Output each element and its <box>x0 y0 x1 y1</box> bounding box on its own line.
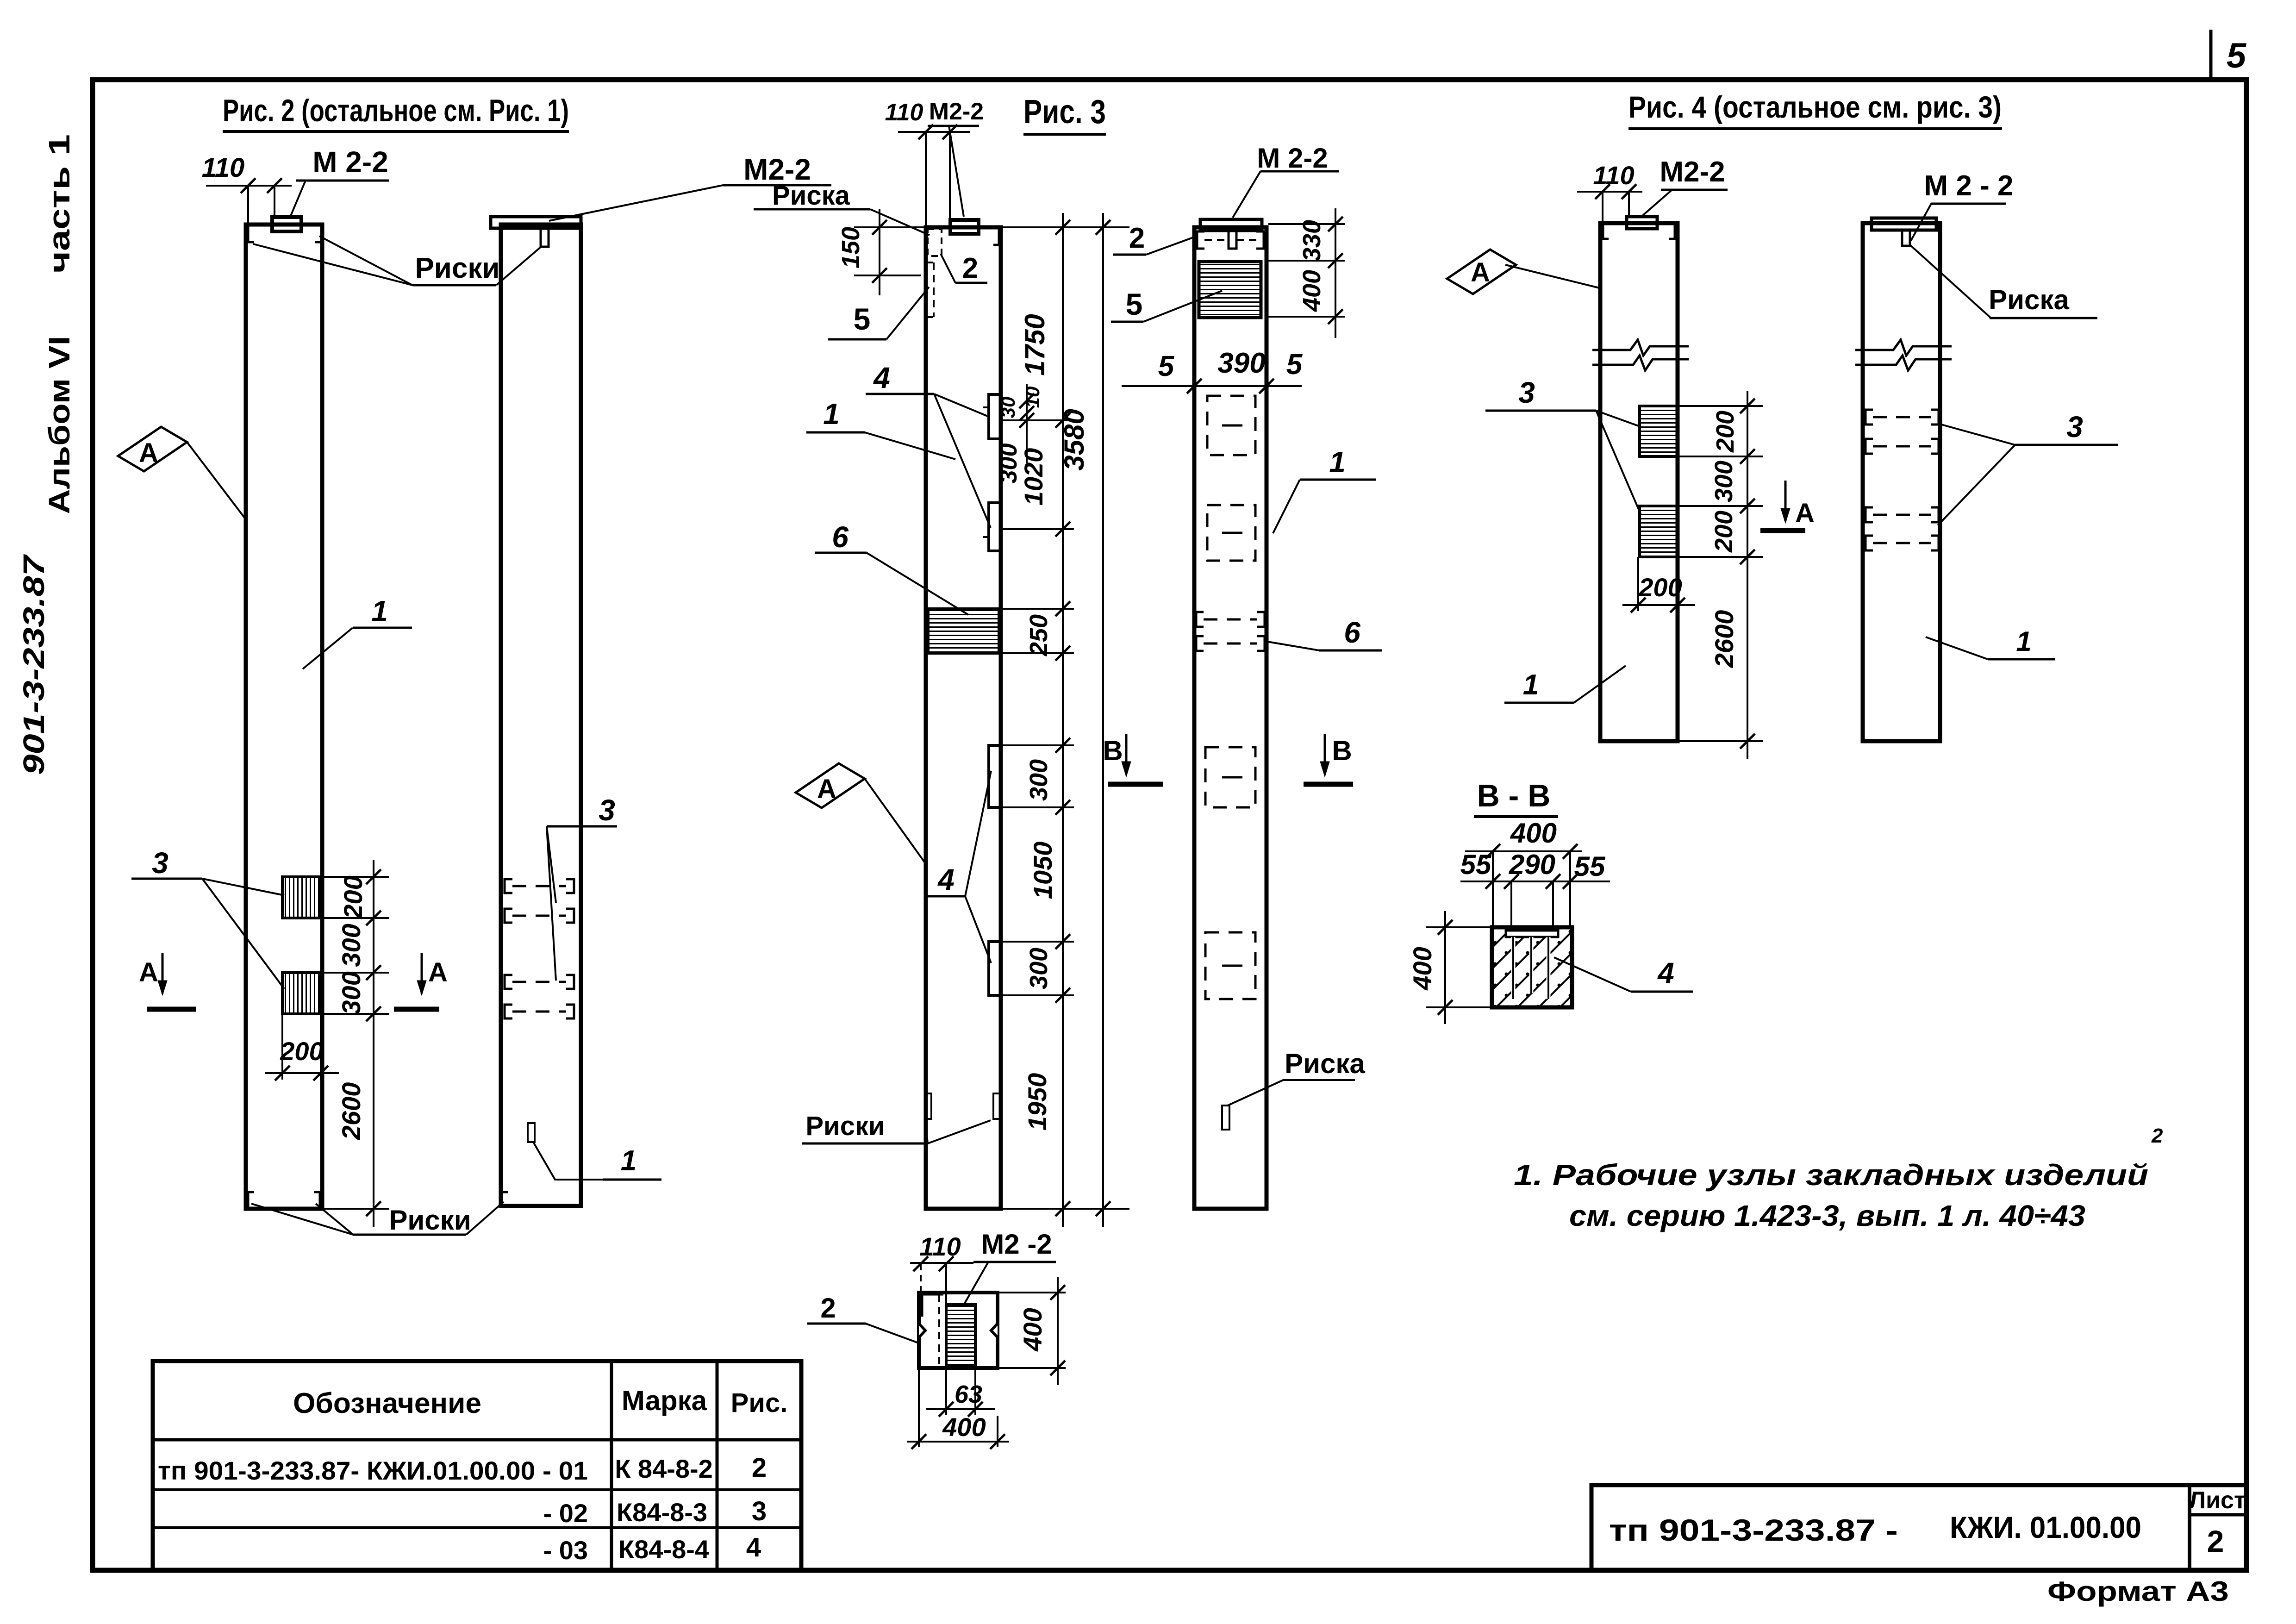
svg-text:5: 5 <box>1286 349 1303 381</box>
svg-text:К 84-8-2: К 84-8-2 <box>615 1454 713 1483</box>
svg-text:Формат А3: Формат А3 <box>2047 1576 2229 1607</box>
svg-text:110: 110 <box>1593 161 1634 190</box>
svg-text:110: 110 <box>202 153 244 183</box>
svg-text:Риска: Риска <box>1285 1048 1365 1079</box>
svg-text:110: 110 <box>885 99 923 126</box>
svg-text:часть 1: часть 1 <box>43 134 76 273</box>
svg-text:330: 330 <box>1298 220 1326 262</box>
svg-text:2: 2 <box>752 1453 767 1483</box>
svg-text:А: А <box>428 957 448 987</box>
svg-text:1: 1 <box>1523 669 1539 701</box>
svg-text:250: 250 <box>1025 614 1053 656</box>
svg-text:4: 4 <box>873 361 890 394</box>
svg-text:1020: 1020 <box>1019 448 1048 506</box>
svg-text:2: 2 <box>1129 222 1145 254</box>
svg-text:6: 6 <box>832 520 849 554</box>
svg-text:300: 300 <box>1025 948 1053 989</box>
svg-text:4: 4 <box>1657 956 1674 990</box>
svg-text:5: 5 <box>1158 350 1175 382</box>
svg-text:К84-8-3: К84-8-3 <box>617 1498 707 1527</box>
svg-text:400: 400 <box>1298 270 1326 312</box>
svg-text:2: 2 <box>820 1293 836 1324</box>
svg-text:390: 390 <box>1217 347 1265 379</box>
svg-text:63: 63 <box>955 1380 982 1408</box>
svg-text:1050: 1050 <box>1028 842 1057 899</box>
svg-text:300: 300 <box>995 443 1022 484</box>
svg-text:А: А <box>817 774 836 804</box>
svg-text:В - В: В - В <box>1477 778 1551 813</box>
svg-text:2600: 2600 <box>1710 610 1739 668</box>
svg-text:Риски: Риски <box>389 1205 471 1236</box>
svg-text:30: 30 <box>997 397 1019 418</box>
svg-text:М 2 - 2: М 2 - 2 <box>1924 170 2014 202</box>
svg-text:В: В <box>1103 735 1123 766</box>
svg-text:М2 -2: М2 -2 <box>981 1229 1052 1260</box>
svg-text:2600: 2600 <box>337 1082 366 1141</box>
svg-text:Рис. 2 (остальное см. Рис. 1): Рис. 2 (остальное см. Рис. 1) <box>223 93 569 128</box>
svg-text:901-3-233.87: 901-3-233.87 <box>17 554 50 775</box>
svg-text:55: 55 <box>1574 851 1606 882</box>
svg-text:5: 5 <box>2227 36 2247 75</box>
svg-text:3: 3 <box>1518 376 1535 409</box>
svg-text:см. серию 1.423-3, вып. 1 л. 4: см. серию 1.423-3, вып. 1 л. 40÷43 <box>1569 1199 2085 1232</box>
svg-text:Лист: Лист <box>2189 1487 2246 1514</box>
svg-text:А: А <box>139 438 158 468</box>
svg-text:В: В <box>1332 735 1352 766</box>
svg-text:1. Рабочие узлы закладных изде: 1. Рабочие узлы закладных изделий <box>1514 1158 2148 1192</box>
svg-text:Риска: Риска <box>1989 284 2069 315</box>
svg-text:3: 3 <box>152 846 168 880</box>
svg-text:3580: 3580 <box>1059 409 1090 470</box>
svg-text:А: А <box>139 957 158 987</box>
svg-text:400: 400 <box>1408 947 1437 990</box>
svg-text:300: 300 <box>337 971 366 1014</box>
svg-text:110: 110 <box>919 1232 961 1261</box>
svg-text:2: 2 <box>2151 1124 2163 1147</box>
svg-text:55: 55 <box>1460 849 1492 880</box>
svg-text:300: 300 <box>1710 461 1738 502</box>
svg-text:А: А <box>1795 498 1815 528</box>
svg-text:200: 200 <box>1710 511 1738 553</box>
svg-text:К84-8-4: К84-8-4 <box>618 1535 709 1564</box>
svg-text:1: 1 <box>621 1145 636 1177</box>
svg-text:М 2-2: М 2-2 <box>312 145 388 179</box>
svg-text:3: 3 <box>599 793 615 827</box>
svg-text:200: 200 <box>1711 411 1739 453</box>
svg-text:300: 300 <box>1025 759 1053 801</box>
svg-text:290: 290 <box>1509 849 1555 880</box>
svg-text:- 02: - 02 <box>543 1499 588 1528</box>
svg-text:4: 4 <box>937 863 955 896</box>
svg-text:200: 200 <box>338 875 368 919</box>
svg-text:Риска: Риска <box>772 181 850 211</box>
svg-text:1750: 1750 <box>1019 314 1050 375</box>
svg-text:150: 150 <box>837 227 865 269</box>
svg-text:М2-2: М2-2 <box>1660 156 1725 188</box>
svg-text:2: 2 <box>2207 1524 2224 1558</box>
svg-text:- 03: - 03 <box>543 1536 588 1565</box>
svg-text:Альбом VI: Альбом VI <box>43 336 76 514</box>
svg-text:300: 300 <box>337 924 366 967</box>
svg-text:3: 3 <box>752 1496 767 1526</box>
svg-text:5: 5 <box>1126 287 1143 321</box>
svg-text:3: 3 <box>2066 410 2083 443</box>
svg-text:6: 6 <box>1344 616 1360 649</box>
svg-text:200: 200 <box>1638 573 1682 602</box>
svg-text:Рис. 4 (остальное см. рис. 3): Рис. 4 (остальное см. рис. 3) <box>1628 90 2002 124</box>
svg-text:1: 1 <box>2016 626 2031 657</box>
svg-text:400: 400 <box>942 1412 986 1442</box>
svg-text:10: 10 <box>1022 387 1043 408</box>
svg-text:2: 2 <box>962 252 978 284</box>
svg-text:тп 901-3-233.87- КЖИ.01.00.00: тп 901-3-233.87- КЖИ.01.00.00 - 01 <box>158 1456 588 1485</box>
svg-text:А: А <box>1471 257 1490 287</box>
svg-text:Рис.: Рис. <box>731 1388 788 1418</box>
svg-text:тп 901-3-233.87 -: тп 901-3-233.87 - <box>1609 1513 1898 1547</box>
svg-text:Рис. 3: Рис. 3 <box>1023 94 1106 131</box>
svg-text:Обозначение: Обозначение <box>293 1387 481 1419</box>
svg-text:4: 4 <box>746 1532 761 1562</box>
svg-text:1950: 1950 <box>1023 1073 1052 1131</box>
svg-text:Риски: Риски <box>415 252 499 284</box>
svg-text:400: 400 <box>1018 1308 1047 1351</box>
svg-text:200: 200 <box>280 1037 323 1066</box>
svg-text:5: 5 <box>854 302 871 336</box>
svg-text:КЖИ. 01.00.00: КЖИ. 01.00.00 <box>1950 1510 2141 1544</box>
svg-text:1: 1 <box>1329 445 1346 479</box>
svg-text:М2-2: М2-2 <box>929 98 984 125</box>
svg-text:1: 1 <box>823 397 840 431</box>
svg-text:1: 1 <box>371 594 388 628</box>
svg-text:400: 400 <box>1510 818 1557 849</box>
svg-text:Риски: Риски <box>805 1111 885 1141</box>
svg-text:Марка: Марка <box>622 1385 707 1416</box>
svg-text:М 2-2: М 2-2 <box>1257 143 1328 174</box>
